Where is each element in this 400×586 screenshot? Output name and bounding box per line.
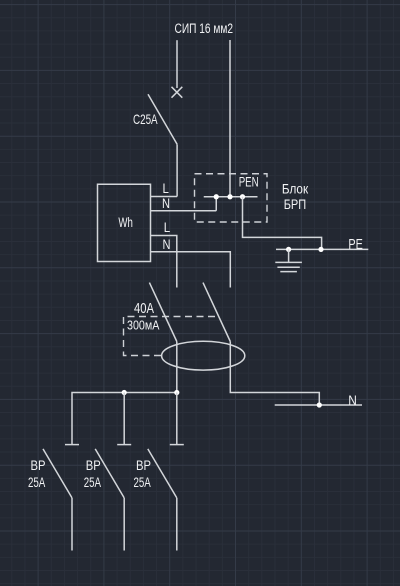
contact tick SF3 — [170, 444, 184, 446]
wire PE busbar — [276, 248, 368, 250]
wire drop to SF2 — [123, 393, 125, 445]
wire meter N1 terminal — [151, 197, 217, 211]
svg-text:300мА: 300мА — [127, 317, 160, 332]
wire supply drop — [176, 40, 178, 88]
terminal block PEN dashed box — [195, 174, 268, 222]
ground earth symbol — [275, 249, 302, 271]
wire drop to SF3 — [176, 393, 178, 445]
svg-text:N: N — [162, 196, 170, 211]
svg-text:25А: 25А — [84, 474, 102, 490]
RCD toroid — [162, 341, 245, 370]
svg-text:ВР: ВР — [31, 457, 46, 473]
wire PEN to PE bar — [243, 197, 322, 250]
wire meter L2 terminal — [151, 236, 177, 288]
node N feed — [317, 402, 322, 407]
svg-text:Блок: Блок — [282, 181, 309, 197]
breaker QF1 blade — [148, 94, 177, 144]
svg-text:ВР: ВР — [136, 457, 151, 473]
node bus tap 3 — [174, 390, 179, 395]
svg-text:Wh: Wh — [118, 214, 132, 230]
wire meter L1 terminal — [151, 196, 178, 198]
svg-text:25А: 25А — [28, 474, 46, 490]
svg-text:PE: PE — [348, 237, 363, 253]
wire SF1 out — [71, 498, 73, 551]
node bus tap 2 — [122, 390, 127, 395]
svg-text:БРП: БРП — [284, 196, 307, 212]
wire SF2 out — [123, 498, 125, 551]
svg-text:СИП 16 мм2: СИП 16 мм2 — [175, 21, 234, 36]
connection cross X — [172, 87, 183, 98]
wire RCD L out — [176, 342, 178, 393]
breaker SF1 blade — [43, 449, 72, 498]
svg-text:40А: 40А — [134, 300, 154, 317]
node PE feed — [318, 247, 323, 252]
node PEN-3 — [240, 194, 245, 199]
svg-text:ВР: ВР — [86, 457, 101, 473]
svg-text:L: L — [163, 181, 170, 196]
svg-text:N: N — [348, 393, 357, 408]
wire PEN internal bus — [204, 196, 258, 198]
node PE ground tap — [286, 247, 291, 252]
wire meter N2 terminal — [151, 252, 231, 288]
svg-text:25А: 25А — [134, 474, 152, 490]
breaker SF3 blade — [148, 449, 177, 498]
RCD blade N — [203, 283, 230, 342]
contact tick SF2 — [117, 444, 131, 446]
wire QF1 to meter L — [176, 144, 178, 196]
svg-text:PEN: PEN — [239, 173, 259, 189]
wire L distribution bus — [72, 393, 179, 445]
RCD linkage dashed — [124, 317, 216, 356]
wire RCD N out — [230, 342, 319, 406]
node PEN-1 — [214, 194, 219, 199]
svg-text:N: N — [163, 237, 171, 252]
meter Wh box — [98, 184, 151, 261]
node PEN-2 — [227, 194, 232, 199]
contact tick SF1 — [65, 444, 79, 446]
svg-text:C25A: C25A — [133, 111, 158, 127]
wire N busbar — [275, 404, 362, 406]
wire PEN supply vertical — [229, 40, 231, 197]
breaker SF2 blade — [95, 449, 124, 498]
svg-text:L: L — [164, 220, 171, 235]
wire SF3 out — [176, 498, 178, 551]
RCD blade L — [149, 283, 176, 342]
